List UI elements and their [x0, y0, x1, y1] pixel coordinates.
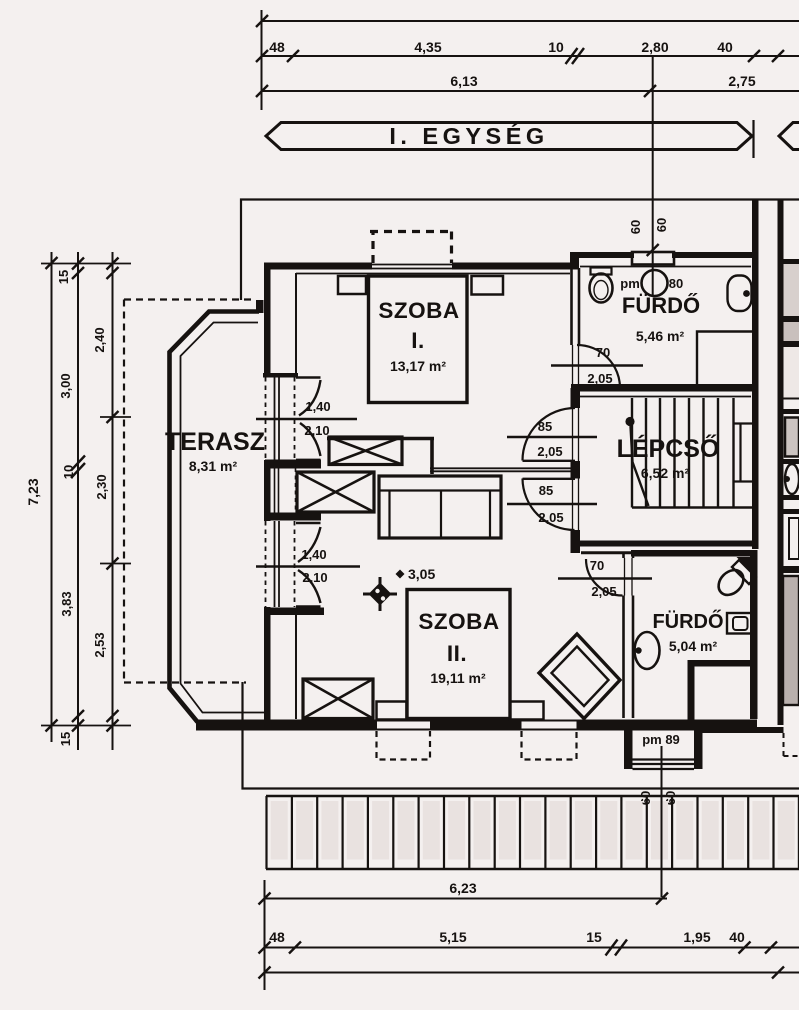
east wall double line seg4	[571, 530, 581, 553]
extension hline y263	[41, 263, 131, 265]
top wall right a	[579, 252, 634, 258]
wardrobe X-box3	[303, 679, 373, 719]
elevation marker diamond	[396, 570, 405, 579]
french door2 upper leaf	[296, 522, 321, 524]
shower square	[697, 332, 752, 388]
armchair outer diamond	[539, 634, 620, 719]
svg-text:8,31 m²: 8,31 m²	[189, 458, 238, 474]
svg-text:6,13: 6,13	[450, 73, 477, 89]
lamp star cross	[363, 577, 397, 611]
terasz bay wall corner to building	[257, 302, 262, 313]
svg-text:5,15: 5,15	[439, 929, 466, 945]
unit right wall	[752, 199, 759, 549]
planter dashed below window2	[522, 731, 577, 760]
bay to wall connector	[256, 300, 264, 313]
deck plank lines	[267, 796, 799, 869]
wc toilet tank	[591, 268, 612, 275]
inner face line top-left	[296, 273, 570, 275]
svg-text:70: 70	[596, 345, 610, 360]
sofa outline	[379, 476, 501, 538]
door2 fraction line	[256, 565, 360, 567]
window furdo1	[632, 252, 674, 265]
svg-text:15: 15	[586, 929, 602, 945]
inner face line top-right	[580, 266, 751, 268]
extension vline bottom left	[264, 880, 266, 990]
tick x262	[256, 85, 268, 97]
szoba1 door leaf	[523, 460, 576, 462]
svg-text:70: 70	[590, 558, 604, 573]
lepcso south wall	[571, 541, 758, 547]
szoba2 door fraction line	[507, 503, 597, 505]
stair walk line start dot	[625, 417, 634, 426]
furdo2 top wall	[631, 550, 757, 557]
wardrobe X-box1	[329, 437, 402, 465]
furniture top line	[327, 437, 434, 441]
neighbor dark room block	[783, 576, 799, 705]
french door1 dashed reveal left	[265, 377, 267, 460]
extension vline x261	[261, 10, 263, 110]
nightstand left szoba2	[377, 702, 407, 720]
neighbor stub y495	[784, 495, 799, 500]
south wall c	[577, 720, 758, 731]
french door1 lower swing arc	[300, 423, 321, 456]
tick C y417	[107, 411, 119, 423]
tick B y725	[72, 720, 84, 732]
tick C y563	[107, 558, 119, 570]
svg-text:II.: II.	[447, 641, 467, 666]
dim vline through pm89	[661, 746, 663, 897]
terasz dashed boundary left	[123, 300, 125, 684]
planter dashed below window1	[377, 731, 431, 760]
neighbor bottom wall	[703, 727, 784, 733]
svg-text:3,05: 3,05	[408, 566, 435, 582]
bed szoba2	[407, 590, 510, 719]
neighbor stub y259	[784, 259, 799, 265]
tick	[259, 942, 271, 954]
svg-text:5,04 m²: 5,04 m²	[669, 638, 718, 654]
tick x262	[256, 50, 268, 62]
svg-text:2,75: 2,75	[728, 73, 755, 89]
terasz dashed boundary top	[124, 298, 252, 300]
X-box1 diagonals	[329, 437, 402, 465]
svg-text:80: 80	[669, 276, 683, 291]
neighbor gray box	[785, 418, 799, 457]
french door2 lower leaf	[296, 605, 321, 607]
deck strip bottom edge	[266, 868, 799, 871]
left wall upper	[264, 263, 271, 378]
french door1 upper swing arc	[299, 380, 321, 416]
toilet2 bowl rotated	[714, 565, 749, 600]
tick	[656, 893, 668, 905]
svg-text:2,40: 2,40	[92, 327, 107, 352]
tick B y463	[71, 456, 85, 471]
tick	[772, 967, 784, 979]
door2 bottom jamb cap	[264, 608, 324, 616]
svg-text:15: 15	[56, 270, 71, 284]
tick x650	[644, 85, 656, 97]
door1 fraction line	[256, 418, 357, 420]
washbasin drain	[743, 290, 750, 297]
deck strip shading	[271, 801, 288, 860]
dim vline C x112	[112, 252, 114, 750]
lamp star diamond	[369, 583, 392, 606]
svg-text:2,53: 2,53	[92, 632, 107, 657]
svg-text:I.: I.	[411, 328, 425, 353]
top wall left b	[452, 263, 570, 270]
szoba1 door fraction line	[507, 436, 597, 438]
tick x293	[287, 50, 299, 62]
neighbor unit wall	[778, 199, 784, 725]
svg-text:SZOBA: SZOBA	[418, 609, 499, 634]
svg-text:85: 85	[538, 419, 552, 434]
tick	[289, 942, 301, 954]
stair landing inner vline	[739, 424, 741, 482]
top wall step	[570, 252, 579, 270]
neighbor stub y459	[784, 459, 799, 464]
sofa armrest left	[388, 491, 390, 539]
french door2 closed leaves	[275, 521, 280, 607]
svg-text:60: 60	[628, 220, 643, 234]
stair bottom edge	[632, 506, 752, 508]
svg-text:85: 85	[539, 483, 553, 498]
eave outline top	[241, 200, 799, 301]
szoba2 door arc	[523, 479, 575, 531]
french door2 lower swing arc	[298, 570, 321, 603]
svg-text:2,10: 2,10	[304, 423, 329, 438]
extension hline y417	[100, 416, 131, 418]
svg-text:pm: pm	[620, 276, 640, 291]
svg-text:48: 48	[269, 929, 285, 945]
south window2 parapet	[522, 721, 577, 730]
french door2 upper swing arc	[298, 527, 321, 562]
X-box2 diagonals	[297, 472, 374, 512]
svg-text:6,23: 6,23	[449, 880, 476, 896]
tick x778	[772, 50, 784, 62]
nightstand right szoba2	[510, 702, 544, 720]
tick C y716	[107, 710, 119, 722]
door1 top jamb cap	[263, 373, 298, 378]
neighbor stub y409	[784, 409, 799, 414]
dimension line top y21	[261, 20, 799, 22]
svg-text:15: 15	[58, 732, 73, 746]
svg-text:2,05: 2,05	[537, 444, 562, 459]
lamp star dots	[375, 589, 379, 593]
tick x578	[572, 48, 584, 64]
neighbor white box inner	[789, 518, 799, 559]
south wall a	[196, 720, 377, 731]
french door1 lower leaf	[296, 459, 321, 461]
furdo2 door opening thin lines	[625, 558, 633, 596]
bottom dim line3	[265, 972, 799, 974]
furdo1 door fraction line	[551, 364, 643, 366]
svg-text:10: 10	[548, 39, 564, 55]
svg-text:FÜRDŐ: FÜRDŐ	[622, 293, 700, 318]
furniture step vline	[430, 437, 434, 474]
french door2 dashed reveal left	[265, 521, 267, 607]
tick C y263	[107, 258, 119, 270]
sink dot	[635, 647, 641, 653]
neighbor thin line y398	[784, 398, 799, 400]
small fixture box	[727, 613, 752, 634]
room divider wall double line	[430, 468, 575, 471]
eave outline bottom	[243, 682, 799, 789]
svg-text:SZOBA: SZOBA	[378, 298, 459, 323]
south wall b	[430, 720, 522, 731]
stub inner thin lines	[275, 468, 279, 513]
left wall inner face upper	[295, 273, 297, 377]
dimension line y91	[261, 90, 799, 92]
left wall mid stub	[264, 460, 271, 521]
bottom dim line2	[265, 947, 799, 949]
terasz bay inner line	[181, 323, 267, 713]
french door1 closed leaves	[275, 377, 280, 460]
svg-text:1,40: 1,40	[305, 399, 330, 414]
svg-text:7,23: 7,23	[25, 478, 41, 505]
banner II start	[779, 123, 799, 150]
furdo2 door arc	[586, 559, 623, 596]
neighbor room fill C	[784, 347, 799, 398]
svg-text:FÜRDŐ: FÜRDŐ	[652, 610, 723, 633]
furdo1 lepcso wall	[571, 384, 758, 392]
french door1 dashed reveal right	[294, 377, 296, 460]
stair landing line2	[734, 480, 752, 482]
east wall opening thin lines furdo door	[573, 345, 579, 388]
bed niche dashed left	[371, 232, 374, 264]
neighbor dashed corner h	[784, 755, 799, 757]
vent circle symbol	[642, 270, 668, 296]
furdo2 left wall double line	[624, 552, 634, 558]
tick	[606, 940, 618, 956]
furdo2 step wall horizontal	[690, 660, 758, 667]
corner triangle behind toilet	[737, 557, 751, 571]
svg-text:pm 89: pm 89	[642, 732, 680, 747]
east wall opening thin lines szoba2 door	[573, 479, 579, 531]
top wall parapet thin under niche	[372, 265, 452, 269]
svg-text:13,17 m²: 13,17 m²	[390, 358, 446, 374]
tick	[615, 940, 627, 956]
french door2 dashed reveal right	[294, 521, 296, 607]
svg-text:6,52 m²: 6,52 m²	[641, 465, 690, 481]
east wall jamb seg2	[571, 388, 581, 408]
svg-text:2,05: 2,05	[587, 371, 612, 386]
svg-text:19,11 m²: 19,11 m²	[430, 670, 486, 686]
stair landing line1	[734, 422, 752, 424]
top wall right b	[672, 252, 758, 258]
bay window protrusion right wall	[694, 730, 703, 769]
svg-text:2,30: 2,30	[94, 474, 109, 499]
east wall opening thin lines szoba1 door	[573, 408, 579, 461]
furdo2 step wall vertical	[688, 660, 695, 721]
bed niche right side	[450, 232, 453, 264]
extension hline y725	[41, 725, 131, 727]
armchair inner diamond	[552, 647, 609, 707]
tick B y263	[72, 258, 84, 270]
neighbor basin oval	[785, 464, 799, 494]
svg-text:2,05: 2,05	[538, 510, 563, 525]
tick	[256, 15, 268, 27]
furdo2 left wall lower part	[624, 596, 634, 719]
stub bar lower	[265, 513, 321, 521]
protrusion window lines	[633, 760, 695, 770]
svg-text:1,40: 1,40	[301, 547, 326, 562]
svg-text:10: 10	[61, 465, 76, 479]
tick B y716	[72, 710, 84, 722]
bed szoba1	[369, 276, 468, 403]
furdo2 door fraction line	[558, 577, 652, 579]
terasz dashed boundary bottom	[124, 681, 246, 683]
bottom dim line1	[265, 898, 668, 900]
tick x754	[748, 50, 760, 62]
tick B y470	[71, 463, 85, 478]
svg-text:4,35: 4,35	[414, 39, 441, 55]
sofa armrest right	[489, 491, 491, 539]
neighbor stub y509	[784, 509, 799, 514]
french door1 upper leaf	[296, 376, 321, 378]
szoba1 door arc	[523, 408, 576, 461]
terasz bay outer wall	[170, 312, 260, 723]
deck strip top edge	[266, 795, 799, 798]
szoba2 door leaf	[523, 478, 576, 480]
dim vline A x51	[51, 252, 53, 742]
tick A bottom	[46, 720, 58, 732]
svg-text:I. EGYSÉG: I. EGYSÉG	[389, 122, 548, 149]
svg-text:2,05: 2,05	[591, 584, 616, 599]
svg-text:LÉPCSŐ: LÉPCSŐ	[617, 434, 720, 463]
svg-text:TERASZ: TERASZ	[165, 428, 265, 456]
sink oval	[635, 632, 660, 669]
east wall jamb seg3	[571, 461, 581, 479]
washbasin right wall	[728, 276, 752, 312]
svg-text:2,80: 2,80	[641, 39, 668, 55]
left wall lower	[264, 607, 271, 725]
tick	[259, 967, 271, 979]
sofa back line	[379, 489, 501, 491]
svg-text:3,83: 3,83	[59, 591, 74, 616]
nightstand right	[472, 276, 504, 295]
neighbor stub y316	[784, 316, 799, 322]
svg-text:60: 60	[654, 218, 669, 232]
banner I. EGYSEG	[266, 123, 752, 150]
neighbor room fill A	[784, 264, 799, 316]
neighbor basin dot	[784, 476, 790, 482]
tick C y273	[107, 267, 119, 279]
svg-text:40: 40	[729, 929, 745, 945]
stub bar upper	[265, 460, 321, 469]
tick A top	[46, 257, 58, 269]
tick B y273	[72, 267, 84, 279]
svg-text:2,10: 2,10	[302, 570, 327, 585]
nightstand left	[338, 276, 366, 294]
svg-text:40: 40	[717, 39, 733, 55]
furdo1 door arc	[577, 345, 620, 388]
svg-text:5,46 m²: 5,46 m²	[636, 328, 685, 344]
neighbor stub y341	[784, 341, 799, 347]
X-box3 diagonals	[303, 679, 373, 719]
tick	[765, 942, 777, 954]
stair treads	[632, 398, 734, 508]
toilet2 tank rotated	[732, 560, 756, 584]
top wall left a	[264, 263, 372, 270]
extension hline y563	[100, 563, 131, 565]
tick C y725	[107, 720, 119, 732]
furdo2 right wall	[750, 550, 758, 719]
tick	[739, 942, 751, 954]
stair walk line	[631, 426, 649, 506]
east wall double line seg1	[572, 268, 580, 345]
tick	[259, 893, 271, 905]
dim vline B x78	[77, 252, 79, 750]
neighbor dashed corner v	[783, 733, 785, 756]
neighbor room fill B	[784, 322, 799, 341]
banner separator vline	[752, 120, 754, 158]
wardrobe X-box2	[297, 472, 374, 512]
wc toilet bowl	[590, 274, 613, 303]
stub dashed face	[295, 468, 297, 513]
bed niche dashed top	[370, 230, 451, 233]
south window1 parapet	[377, 721, 430, 730]
svg-text:3,00: 3,00	[58, 373, 73, 398]
bay window protrusion left wall	[624, 730, 633, 769]
tick x571	[566, 48, 578, 64]
extension vline x652 (window axis)	[652, 57, 654, 295]
svg-text:1,95: 1,95	[683, 929, 710, 945]
lepcso south wall inner line	[581, 551, 634, 554]
svg-text:48: 48	[269, 39, 285, 55]
wc bowl inner	[594, 281, 608, 300]
left wall inner face lower	[295, 610, 297, 719]
sofa seat split	[440, 491, 442, 539]
neighbor stub y566	[784, 566, 799, 573]
furdo1 lepcso wall inner line	[580, 396, 751, 398]
dimension chain line y56	[261, 55, 799, 57]
tick on x652 at wall	[647, 244, 659, 256]
small fixture inner	[733, 617, 748, 630]
